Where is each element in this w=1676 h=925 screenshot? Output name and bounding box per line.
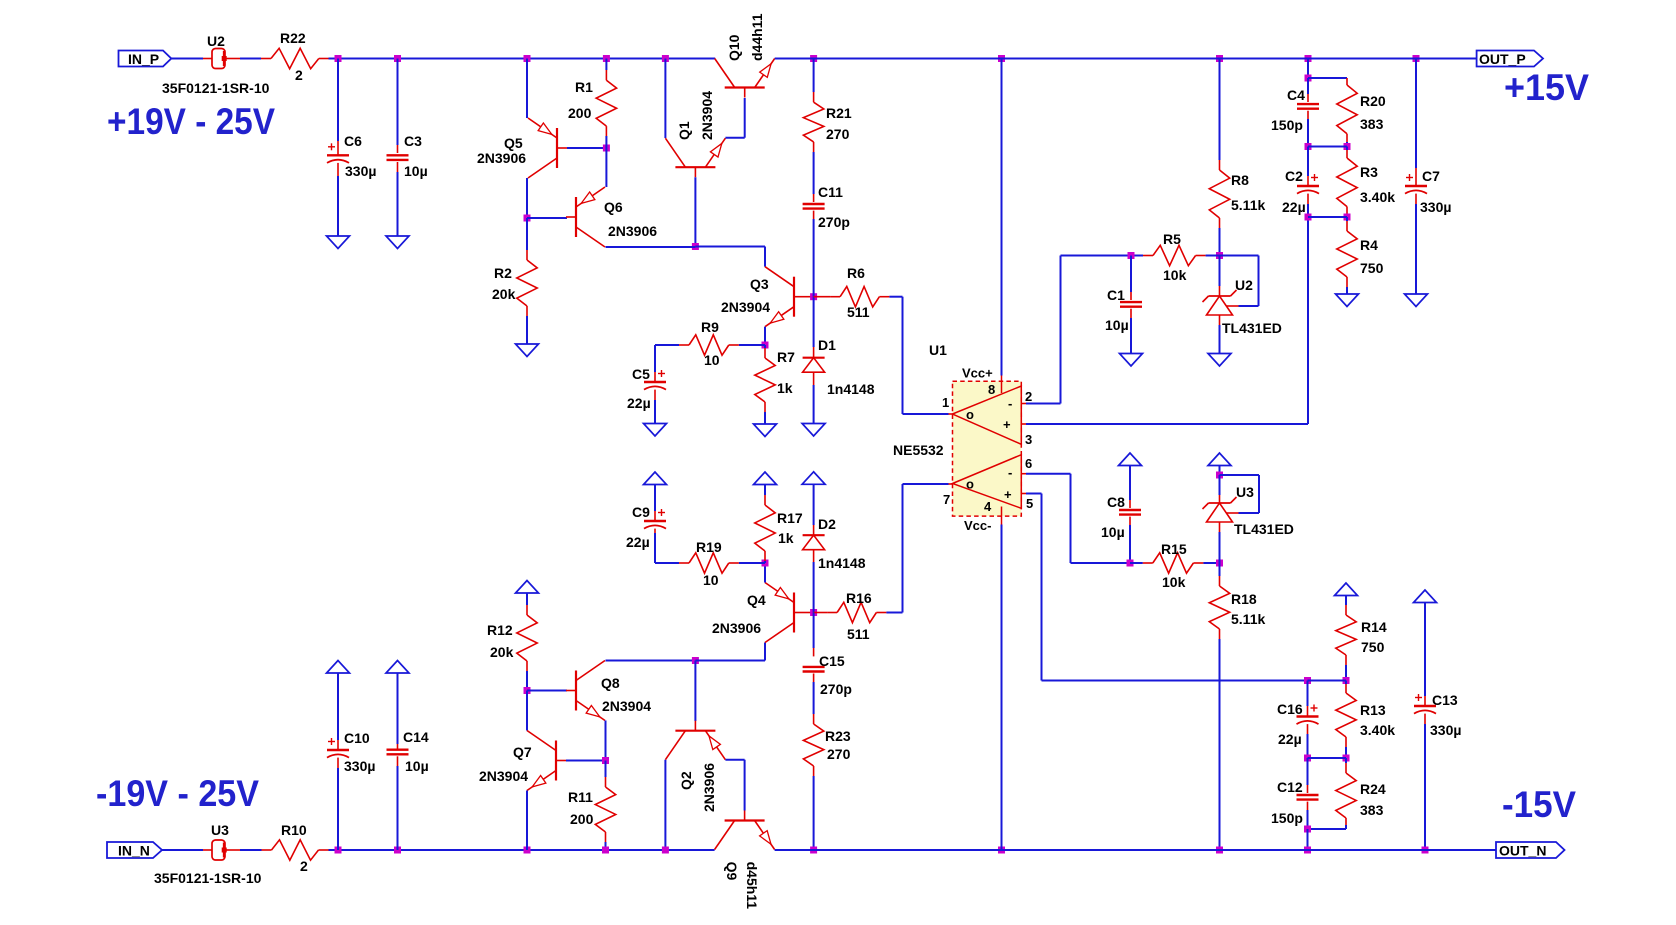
wire C4-R20 bottom tie [1308,146,1347,148]
svg-text:1k: 1k [777,380,793,396]
wire R4 top [1346,217,1348,221]
svg-text:383: 383 [1360,116,1384,132]
U1 pin 5 wire to lower divider tap [1021,493,1026,495]
wire R24 top [1345,758,1347,763]
wire C10 column [337,673,339,740]
svg-text:511: 511 [847,626,870,642]
svg-text:R17: R17 [777,510,803,526]
node junction R3 bottom [1344,214,1351,221]
svg-text:5.11k: 5.11k [1231,197,1265,213]
wire Q4 emitter to node [764,563,766,583]
svg-text:U1: U1 [929,342,947,358]
svg-text:Q9: Q9 [724,862,740,881]
svg-text:Q5: Q5 [504,135,523,151]
svg-text:Vcc-: Vcc- [964,518,991,533]
wire IN_P to U2 bead [171,58,203,60]
wire R18 to rail [1219,629,1221,639]
ground R4 [1336,294,1359,307]
resistor R7 1k [755,358,775,402]
svg-text:22µ: 22µ [626,534,650,550]
svg-text:-: - [1008,396,1012,411]
wire to C4 [1307,78,1309,94]
svg-text:Q3: Q3 [750,276,769,292]
svg-text:10µ: 10µ [404,163,428,179]
svg-text:22µ: 22µ [627,395,651,411]
svg-text:1n4148: 1n4148 [818,555,866,571]
wire C12 bottom [1307,802,1309,810]
ferrite bead U2 [212,49,225,69]
node junction R5/C1/pin2 [1128,252,1135,259]
node junction C12/R24 [1304,826,1311,833]
wire D1 to ground [813,372,815,385]
U1 pin 4 Vcc- wire [998,847,1005,854]
wire Q2 base [694,661,696,722]
node junction rail/C12-R24 [1304,847,1311,854]
wire Q1 collector [664,59,666,139]
capacitor C11 270p [803,203,825,205]
svg-text:R22: R22 [280,30,306,46]
svg-text:2N3904: 2N3904 [699,91,715,140]
svg-text:150p: 150p [1271,117,1303,133]
node junction rail/R8 [1216,55,1223,62]
svg-text:330µ: 330µ [1420,199,1451,215]
node junction C8/R15/pin6 [1127,560,1134,567]
svg-text:511: 511 [847,304,870,320]
diode D1 1n4148 [803,357,825,359]
wire IN_N to U3 bead [162,849,203,851]
svg-text:R18: R18 [1231,591,1257,607]
wire arrow to R17 [764,485,766,496]
svg-text:7: 7 [943,492,950,507]
svg-text:D1: D1 [818,337,836,353]
node junction Q8 collector/Q2 base [692,657,699,664]
wire Q2 emitter to Q9 base [725,759,744,761]
wire U3 anode to node [1219,522,1221,532]
capacitor C1 10u [1120,301,1142,303]
node junction rail/C7 [1413,55,1420,62]
svg-text:C1: C1 [1107,287,1125,303]
transistor Q4 2N3906 [793,593,795,633]
svg-text:2N3906: 2N3906 [712,620,761,636]
ground C7 [1405,294,1428,307]
resistor R2 20k [517,260,537,306]
svg-text:R23: R23 [825,728,851,744]
wire C5 to ground [654,390,656,400]
resistor R22 [271,48,319,68]
svg-text:R7: R7 [777,349,795,365]
ground C6 [327,236,350,249]
wire C10 to rail [337,758,339,768]
node junction Q8 emitter/R11/Q7 base [602,757,609,764]
power arrow R12 [516,581,539,594]
wire C15 to R23 [813,674,815,683]
svg-text:R4: R4 [1360,237,1378,253]
wire arrow to R14 [1345,596,1347,606]
node junction rail/C10 [335,847,342,854]
svg-text:Q2: Q2 [678,771,694,790]
svg-text:C15: C15 [819,653,845,669]
svg-text:C7: C7 [1422,168,1440,184]
wire rail to R21 [813,59,815,93]
svg-text:C2: C2 [1285,168,1303,184]
wire R11 to rail [605,832,607,842]
node junction Q3 emitter/R9/R7 [762,342,769,349]
svg-text:1n4148: 1n4148 [827,381,875,397]
transistor Q3 2N3904 [793,277,795,317]
transistor Q9 d45h11 [725,819,765,821]
svg-text:-: - [1008,465,1012,480]
resistor R23 270 [803,724,823,766]
svg-text:C3: C3 [404,133,422,149]
node junction rail/R18 [1216,847,1223,854]
svg-text:C10: C10 [344,730,370,746]
node junction Q1 base/Q6 collector [692,243,699,250]
wire R21 to C11 [813,142,815,152]
wire C13 to rail [1424,714,1426,724]
power arrow C9 [644,472,667,485]
node junction rail/Q2 collector [662,847,669,854]
svg-text:Q8: Q8 [601,675,620,691]
svg-text:3: 3 [1025,432,1032,447]
node junction rail/C3 [394,55,401,62]
node junction rail/R11 [602,847,609,854]
wire R17 to node [764,551,766,561]
node junction Q5 collector/Q6 base/R2 [524,215,531,222]
svg-text:+: + [1004,487,1012,502]
power arrow R17 [754,472,777,485]
transistor Q1 2N3904 [675,166,715,168]
wire Q8 collector run [606,660,696,662]
node junction C4/R20 top [1305,75,1312,82]
wire node to R7 [764,345,766,348]
wire R19 to C9 [679,562,689,564]
svg-text:o: o [966,477,974,492]
node junction rail/R23 [810,847,817,854]
resistor R18 5.11k [1209,586,1229,629]
node junction R20 bottom [1344,143,1351,150]
wire Q8 emitter to node [605,721,607,761]
wire Q2 collector to rail [664,760,666,850]
wire U2 ref loop [1239,305,1259,307]
wire Q4 base to node [804,612,814,614]
wire Q8 base [527,690,567,692]
svg-text:2N3906: 2N3906 [608,223,657,239]
svg-text:NE5532: NE5532 [893,442,944,458]
svg-text:20k: 20k [492,286,516,302]
svg-text:10µ: 10µ [1105,317,1129,333]
wire D2 to node [813,550,815,562]
wire Q3 emitter to node [764,327,766,345]
wire R3 top [1346,147,1348,151]
node junction rail/R21 [810,55,817,62]
svg-text:20k: 20k [490,644,514,660]
svg-text:TL431ED: TL431ED [1234,521,1294,537]
wire tap tie [1308,680,1347,682]
node junction rail/Q5 [524,55,531,62]
svg-text:-19V - 25V: -19V - 25V [96,773,259,814]
wire C2 bottom [1307,194,1309,204]
svg-text:Q1: Q1 [676,121,692,140]
svg-text:383: 383 [1360,802,1384,818]
ground R7 [754,424,777,437]
resistor R9 10 [739,344,765,346]
U1 pin 6 wire to C8/R15 node [1021,473,1026,475]
wire R8 to reference node [1219,218,1221,228]
resistor R24 383 [1336,773,1356,818]
svg-text:R14: R14 [1361,619,1387,635]
wire U3 to R10 [227,849,241,851]
wire C6 to ground [337,163,339,176]
ground R2 [516,344,539,357]
svg-text:22µ: 22µ [1282,199,1306,215]
wire C13 column [1424,603,1426,697]
svg-text:C9: C9 [632,504,650,520]
node junction R12/Q7 collector/Q8 base [524,687,531,694]
wire R2 to ground [526,306,528,316]
port IN_P [119,51,172,67]
svg-text:750: 750 [1361,639,1385,655]
transistor Q8 2N3904 [575,671,577,711]
svg-text:OUT_N: OUT_N [1499,843,1546,859]
wire C1 to ground [1130,309,1132,318]
svg-text:Vcc+: Vcc+ [962,366,993,381]
capacitor C14 10u [387,749,409,751]
wire U2 to R22 [227,58,241,60]
resistor R17 1k [755,505,775,551]
capacitor C8 10u [1119,509,1141,511]
power arrow R14 [1335,583,1358,596]
capacitor C9 22u [644,520,666,522]
node junction R15/R18/U3 anode [1216,560,1223,567]
node junction rail/C13 [1422,847,1429,854]
svg-text:R20: R20 [1360,93,1386,109]
svg-text:U2: U2 [1235,277,1253,293]
wire R6 to U1 pin1 [879,296,889,298]
svg-text:6: 6 [1025,456,1032,471]
svg-text:10k: 10k [1162,574,1186,590]
capacitor C13 330u [1414,705,1436,707]
resistor R1 200 [596,80,616,126]
node junction U3 cathode/ref [1216,472,1223,479]
node junction rail/C14 [394,847,401,854]
node junction R13 bottom [1343,755,1350,762]
wire R4 to ground [1346,277,1348,287]
wire U3 ref loop [1239,512,1260,514]
svg-text:+: + [1003,417,1011,432]
resistor R6 511 [814,296,831,298]
wire arrow to D2 [813,484,815,525]
wire rail to R8 [1219,59,1221,161]
svg-text:o: o [966,407,974,422]
wire Q7 emitter to rail [526,791,528,851]
port IN_N [107,842,162,858]
node junction Q3 base/C11/D1/R6 [810,293,817,300]
svg-text:Q10: Q10 [726,34,742,61]
power arrow D2 [802,472,825,485]
svg-text:U3: U3 [211,822,229,838]
power arrow C8 [1119,453,1142,466]
svg-text:8: 8 [988,382,995,397]
resistor R11 200 [595,787,615,832]
svg-text:330µ: 330µ [345,163,376,179]
node junction rail/C6 [335,55,342,62]
ferrite bead U3 [212,840,225,860]
svg-text:330µ: 330µ [344,758,375,774]
wire R14 to node [1345,655,1347,665]
svg-text:R9: R9 [701,319,719,335]
wire R7 to ground [764,402,766,412]
svg-text:C14: C14 [403,729,429,745]
svg-text:d44h11: d44h11 [749,13,765,61]
wire Q6 emitter to R1 node [605,148,607,187]
svg-text:R12: R12 [487,622,513,638]
port OUT_N [1496,842,1565,858]
svg-text:R11: R11 [568,789,593,805]
capacitor C4 150p [1297,103,1319,105]
wire C11 to base node [813,211,815,219]
ground C5 [644,424,667,437]
U1 pin 3 wire to divider tap [1021,423,1026,425]
svg-text:R10: R10 [281,822,307,838]
svg-text:OUT_P: OUT_P [1479,51,1526,67]
wire node to rail [1307,829,1309,850]
node junction rail/Q1 collector [662,55,669,62]
wire R1 to base node [605,126,607,136]
wire C3 to ground [397,162,399,172]
diode D2 1n4148 [803,534,825,536]
wire Q6 base [527,217,567,219]
wire C1 drop [1130,256,1132,293]
wire C3 drop [397,59,399,146]
svg-text:2: 2 [1025,389,1032,404]
U1 pin 8 Vcc+ wire [998,55,1005,62]
wire top rail left (input net) [319,58,329,60]
svg-text:D2: D2 [818,516,836,532]
wire bottom rail left (input net) [319,849,329,851]
wire R13 top [1345,681,1347,685]
svg-text:C16: C16 [1277,701,1303,717]
wire U2 anode to ground [1219,315,1221,325]
svg-text:10µ: 10µ [1101,524,1125,540]
op-amp U1 NE5532 body [953,381,1022,516]
svg-text:R13: R13 [1360,702,1386,718]
resistor R14 750 [1336,615,1356,655]
wire C15 top [813,613,815,649]
shunt reference U3 TL431ED [1209,502,1231,504]
svg-text:750: 750 [1360,260,1384,276]
resistor R12 20k [517,615,537,661]
node junction C2 bottom / divider tap [1305,214,1312,221]
power arrow U3 [1208,453,1231,466]
wire R20 branch top [1308,77,1347,79]
transistor Q10 d44h11 [725,86,765,88]
wire Q1 emitter to Q10 base [725,137,744,139]
svg-text:-15V: -15V [1502,784,1576,825]
svg-text:35F0121-1SR-10: 35F0121-1SR-10 [162,80,270,96]
capacitor C7 330u [1405,185,1427,187]
transistor Q7 2N3904 [555,741,557,781]
transistor Q6 2N3906 [575,197,577,237]
svg-text:270p: 270p [818,214,850,230]
wire Q7 collector [526,691,528,731]
svg-text:10: 10 [703,572,719,588]
svg-text:R21: R21 [826,105,852,121]
svg-text:10µ: 10µ [405,758,429,774]
svg-text:+19V - 25V: +19V - 25V [107,101,275,142]
wire Q3 base to node [804,296,814,298]
svg-text:R5: R5 [1163,231,1181,247]
wire U3 cathode [1219,475,1221,495]
wire C12 top [1307,758,1309,785]
wire C4 bottom [1307,111,1309,119]
wire Q5 emitter [526,59,528,119]
capacitor C2 22u [1297,185,1319,187]
svg-text:Q4: Q4 [747,592,766,608]
wire R2 drop [526,218,528,250]
resistor R20 383 [1337,85,1357,134]
node junction C4 bottom [1305,143,1312,150]
svg-text:U3: U3 [1236,484,1254,500]
svg-text:2N3904: 2N3904 [479,768,528,784]
svg-text:Q7: Q7 [513,744,532,760]
transistor Q5 2N3906 [556,128,558,168]
capacitor C3 10u [387,154,409,156]
wire R24 bottom to C12 node [1345,818,1347,825]
svg-text:10k: 10k [1163,267,1187,283]
svg-text:R1: R1 [575,79,593,95]
node junction rail/R1 [603,55,610,62]
node junction R5/R8/U2 reference [1216,252,1223,259]
resistor R10 2 [272,840,319,860]
node junction lower tap/C16 [1304,677,1311,684]
capacitor C10 330u [327,749,349,751]
capacitor C16 22u [1297,715,1319,717]
node junction rail/C4-R20 [1305,55,1312,62]
resistor R5 10k [1131,255,1143,257]
resistor R19 10 [739,562,765,564]
svg-text:2: 2 [295,67,303,83]
svg-text:R24: R24 [1360,781,1386,797]
node junction Q4 base/D2/R16/C15 [810,609,817,616]
svg-text:U2: U2 [207,33,225,49]
capacitor C12 150p [1297,794,1319,796]
wire node to Q4 collector [695,660,765,662]
svg-text:5: 5 [1026,496,1033,511]
node junction lower tap/R14-R13 [1343,677,1350,684]
wire C14 column [397,673,399,744]
wire C7 to ground [1415,194,1417,204]
svg-text:C13: C13 [1432,692,1458,708]
wire Q5 collector to Q6 base node [526,178,528,218]
svg-text:R6: R6 [847,265,865,281]
resistor R16 511 [814,612,828,614]
wire arrow to R12 [526,593,528,605]
wire U2 cathode [1219,256,1221,287]
wire R13 bottom [1345,737,1347,747]
shunt reference U2 TL431ED [1209,295,1231,297]
wire C8 to node [1129,517,1131,525]
wire base node to D1 [813,297,815,347]
wire R12 to node [526,661,528,671]
svg-text:10: 10 [704,352,720,368]
wire Q7 base to node [566,760,606,762]
wire bottom rail right (output net) [775,849,1496,851]
svg-text:R15: R15 [1161,541,1187,557]
node junction C16 bottom [1304,755,1311,762]
svg-text:C5: C5 [632,366,650,382]
svg-text:IN_P: IN_P [128,51,159,67]
svg-text:270: 270 [827,746,851,762]
